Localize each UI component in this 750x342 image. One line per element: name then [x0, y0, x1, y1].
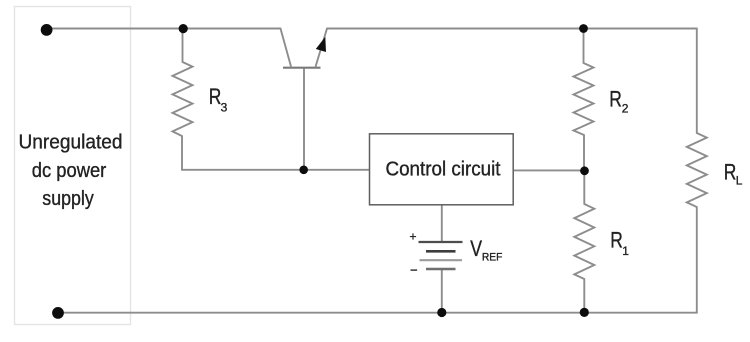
svg-text:R: R — [609, 86, 622, 111]
svg-text:dc power: dc power — [32, 160, 107, 182]
svg-text:R: R — [209, 84, 222, 109]
svg-text:REF: REF — [482, 251, 503, 263]
svg-text:+: + — [410, 230, 417, 244]
svg-text:−: − — [410, 263, 418, 278]
svg-text:R: R — [724, 160, 737, 185]
svg-text:Unregulated: Unregulated — [19, 131, 123, 153]
svg-text:1: 1 — [622, 244, 629, 258]
svg-text:3: 3 — [221, 101, 228, 115]
svg-text:Control circuit: Control circuit — [386, 158, 501, 181]
svg-text:R: R — [610, 227, 623, 252]
svg-text:2: 2 — [622, 102, 629, 116]
svg-text:supply: supply — [42, 188, 94, 210]
svg-text:V: V — [470, 236, 482, 261]
svg-text:L: L — [736, 174, 743, 188]
